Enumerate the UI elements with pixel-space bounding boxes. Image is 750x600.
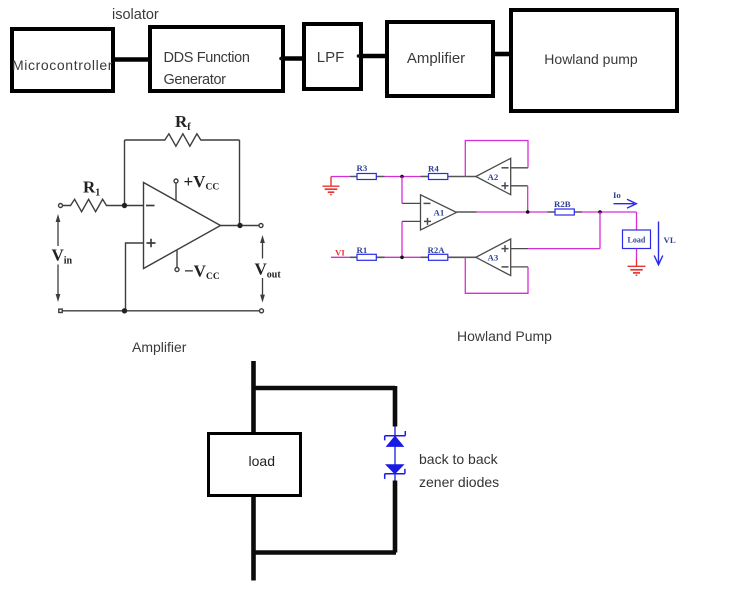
resistor R2B	[555, 209, 574, 215]
block load	[207, 432, 302, 497]
wire magenta R1 to node	[385, 256, 403, 258]
A2 plus input lead	[511, 185, 528, 187]
wire gray R2A lead left	[421, 256, 429, 258]
wire magenta A2 plus down to mid row	[527, 186, 529, 212]
node dot output	[237, 223, 242, 228]
A1 plus sign	[424, 218, 431, 225]
arrow VL blue	[654, 222, 663, 265]
wire gray R3 leads	[350, 176, 385, 178]
A2 minus sign	[502, 167, 509, 169]
svg-text:R1: R1	[83, 178, 100, 199]
zener diode D1 cathode bar	[385, 431, 406, 440]
svg-text:R2B: R2B	[554, 199, 571, 209]
A1 plus input lead	[402, 220, 421, 222]
terminal output circle	[259, 224, 263, 228]
wire magenta A3 feedback loop	[465, 257, 528, 293]
A3 minus sign	[502, 266, 509, 268]
svg-text:R4: R4	[428, 164, 439, 174]
wire feedback top with resistor Rf	[125, 134, 240, 146]
resistor R1	[357, 254, 376, 260]
svg-text:Vin: Vin	[52, 246, 73, 267]
wire magenta node to R4	[402, 176, 421, 178]
node dot inverting input	[122, 203, 127, 208]
svg-text:−VCC: −VCC	[184, 262, 220, 283]
svg-text:Load: Load	[628, 236, 646, 245]
wire magenta vertical A1 plus to bottom node	[401, 221, 403, 257]
wire magenta A3 plus to mid node	[528, 212, 600, 249]
caption Amplifier (op-amp schematic)	[132, 339, 186, 355]
caption Howland Pump	[457, 328, 552, 344]
wire gray R1 leads	[350, 256, 385, 258]
AMPLIFIER SCHEMATIC	[59, 134, 264, 313]
A3 minus input lead	[511, 266, 528, 268]
svg-text:VL: VL	[664, 235, 676, 245]
svg-text:Vout: Vout	[255, 260, 282, 281]
label isolator	[112, 7, 159, 23]
op-amp A2 triangle (points left)	[476, 158, 511, 194]
arrow Io blue	[614, 199, 637, 208]
wire magenta A2 feedback loop	[465, 141, 528, 177]
label back to back zener diodes	[419, 448, 499, 494]
terminal input circle	[59, 204, 63, 208]
node dot LPF output	[357, 54, 361, 58]
node junction R1/R2A	[400, 255, 404, 259]
block Microcontroller	[10, 27, 115, 93]
node junction mid row right	[598, 210, 602, 214]
block Amplifier	[385, 20, 495, 98]
op-amp A3 triangle (points left)	[476, 239, 511, 276]
op-amp U1 triangle	[144, 183, 221, 269]
wire right vertical upper	[393, 386, 398, 427]
svg-text:A3: A3	[488, 253, 499, 263]
wire plus input to ground rail	[126, 243, 144, 311]
-VCC terminal circle	[175, 268, 179, 272]
load box	[623, 230, 651, 249]
wire magenta mid row to R2B	[477, 211, 548, 213]
svg-text:VI: VI	[335, 248, 345, 258]
Vin arrow	[56, 214, 61, 302]
svg-text:R3: R3	[357, 163, 368, 173]
A3 plus input lead	[511, 248, 528, 250]
wire bottom horizontal	[252, 550, 397, 555]
svg-text:A2: A2	[488, 172, 499, 182]
wire magenta R2B to load branch	[582, 212, 637, 230]
wire top horizontal	[252, 386, 396, 391]
zener diodes thin blue wire	[394, 427, 396, 481]
wire magenta load to ground	[636, 249, 638, 260]
block DDS Function Generator	[148, 25, 286, 93]
resistor R1 zigzag	[63, 199, 144, 211]
-VCC pin wire	[176, 250, 178, 267]
Vout arrow	[260, 235, 265, 303]
block Howland pump	[509, 8, 679, 113]
svg-text:Io: Io	[613, 190, 621, 200]
node dot ground rail	[122, 308, 127, 313]
node junction mid row left	[526, 210, 530, 214]
wire gray R2B leads	[548, 211, 583, 213]
plus input sign	[147, 239, 156, 248]
op-amp A1 triangle (points right)	[421, 195, 457, 230]
wire gray R4 lead left	[421, 176, 429, 178]
resistor R2A	[429, 254, 448, 260]
terminal bottom-left	[59, 309, 62, 312]
A2 minus input lead	[511, 167, 528, 169]
zener diode D2 cathode bar	[385, 469, 405, 479]
wire magenta bottom row VI to R1	[331, 256, 350, 258]
wire Amplifier to Howland pump	[494, 52, 510, 57]
wire gray A1 output	[457, 211, 477, 213]
svg-text:+VCC: +VCC	[184, 172, 220, 193]
zener diode D2 triangle (down)	[386, 465, 403, 474]
wire right vertical feedback	[239, 140, 241, 226]
block LPF	[302, 22, 363, 91]
wire DDS to LPF	[284, 56, 303, 61]
HOWLAND PUMP SCHEMATIC	[323, 141, 663, 294]
node junction R3/R4	[400, 175, 404, 179]
svg-text:Rf: Rf	[175, 112, 191, 133]
A1 minus sign	[424, 202, 431, 204]
svg-text:R2A: R2A	[428, 245, 446, 255]
wire bottom rail	[63, 310, 260, 312]
wire Microcontroller to DDS	[114, 57, 149, 62]
A2 plus sign	[502, 182, 509, 189]
zener diode D1 triangle (up)	[387, 436, 404, 446]
node dot DDS output	[279, 57, 283, 61]
+VCC terminal circle	[174, 179, 178, 183]
wire magenta top row ground to R3	[331, 176, 350, 178]
wire gray R2A to A3 output	[448, 256, 477, 258]
wire bottom stub	[251, 497, 256, 581]
ground GND2 red	[628, 259, 646, 275]
BOTTOM ZENER CIRCUIT	[252, 361, 397, 581]
resistor R4	[429, 174, 448, 180]
wire right vertical lower	[393, 481, 398, 553]
A1 minus input lead	[402, 202, 421, 204]
wire output	[221, 225, 260, 227]
wire top stub	[251, 361, 256, 432]
+VCC pin wire	[175, 183, 177, 200]
wire LPF to Amplifier	[361, 54, 386, 59]
A3 plus sign	[502, 245, 509, 252]
resistor R3	[357, 174, 376, 180]
svg-text:R1: R1	[357, 245, 368, 255]
svg-text:A1: A1	[434, 208, 445, 218]
wire left vertical feedback	[124, 140, 126, 206]
terminal bottom-right	[260, 309, 264, 313]
wire gray R4 to A2 output	[448, 176, 477, 178]
wire magenta vertical node to A1 minus	[401, 177, 403, 204]
minus input sign	[146, 205, 155, 207]
ground GND1 red	[323, 177, 340, 195]
wire magenta R3 to node	[385, 176, 403, 178]
wire magenta node to R2A	[402, 256, 421, 258]
